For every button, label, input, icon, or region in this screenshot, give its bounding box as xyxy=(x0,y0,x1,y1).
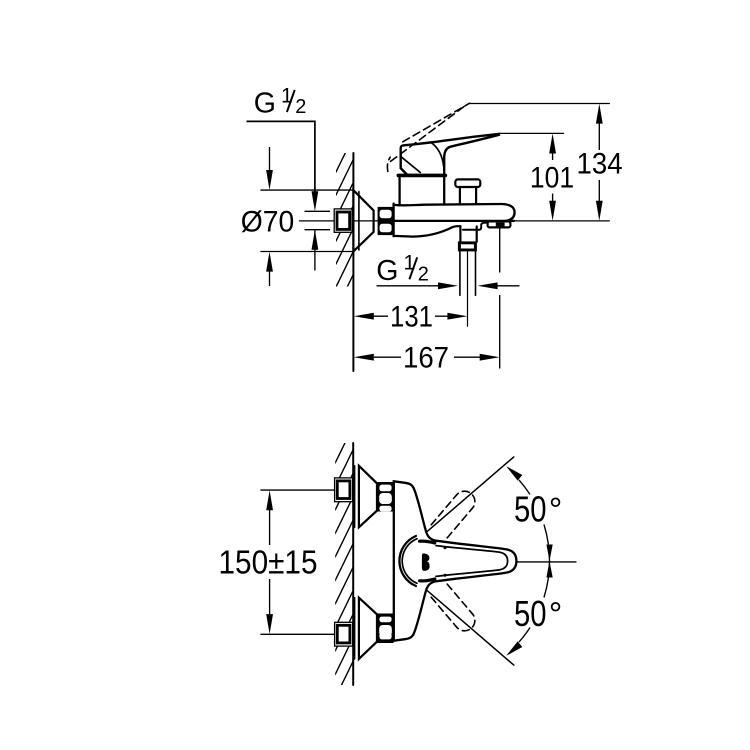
svg-text:50: 50 xyxy=(514,489,547,530)
svg-text:°: ° xyxy=(549,596,563,634)
svg-text:Ø70: Ø70 xyxy=(241,205,294,238)
svg-text:134: 134 xyxy=(577,147,623,180)
svg-text:50: 50 xyxy=(514,593,547,634)
svg-text:150±15: 150±15 xyxy=(219,544,318,581)
svg-text:2: 2 xyxy=(295,96,306,118)
svg-text:°: ° xyxy=(549,492,563,530)
svg-text:G: G xyxy=(376,255,398,287)
svg-text:2: 2 xyxy=(418,264,429,286)
svg-text:1: 1 xyxy=(281,84,293,107)
svg-text:1: 1 xyxy=(404,252,416,275)
svg-text:G: G xyxy=(254,88,276,120)
svg-text:131: 131 xyxy=(390,300,433,333)
svg-text:101: 101 xyxy=(530,162,574,195)
svg-text:167: 167 xyxy=(403,342,449,375)
